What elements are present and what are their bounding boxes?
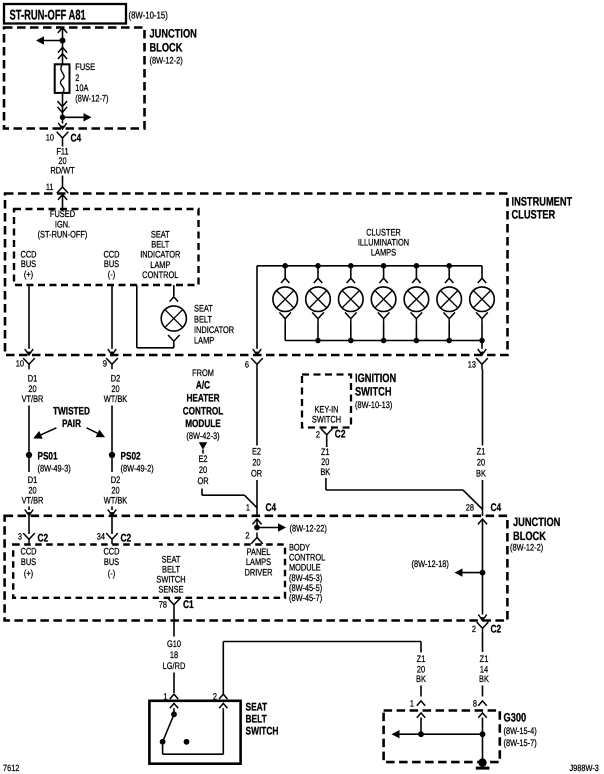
svg-text:J988W-3: J988W-3 <box>569 763 598 773</box>
wire F11 20 RD/WT <box>62 143 64 147</box>
wire E2 from A/C module <box>202 450 204 454</box>
svg-text:1: 1 <box>246 503 250 513</box>
svg-text:C2: C2 <box>37 533 48 545</box>
svg-text:LAMPS: LAMPS <box>371 247 396 258</box>
svg-text:CCD: CCD <box>103 547 119 558</box>
fuse 2 10A <box>55 64 70 93</box>
svg-text:SWITCH: SWITCH <box>246 726 279 738</box>
wire CCD(+) to pin 10 <box>28 285 30 349</box>
svg-text:CONTROL: CONTROL <box>183 406 224 418</box>
junction dot ground node <box>480 731 486 737</box>
svg-text:C2: C2 <box>490 624 501 636</box>
svg-text:2: 2 <box>472 624 476 634</box>
svg-text:INDICATOR: INDICATOR <box>194 325 234 336</box>
wire Z1 14 BK to G300 <box>482 633 484 652</box>
svg-text:BUS: BUS <box>104 557 119 568</box>
svg-text:VT/BR: VT/BR <box>22 394 44 405</box>
arrow to other circuits (right) <box>84 113 92 121</box>
junction block (top) outline <box>4 28 145 129</box>
wire D1 segment <box>28 406 30 452</box>
svg-text:2: 2 <box>213 692 217 702</box>
svg-text:RD/WT: RD/WT <box>50 165 74 176</box>
svg-text:(8W-42-3): (8W-42-3) <box>186 431 219 442</box>
svg-text:HEATER: HEATER <box>186 393 219 405</box>
arrow to other circuits (left) <box>36 36 44 44</box>
junction dot 8W-12-18 node <box>480 570 486 576</box>
lamp L2 cluster illumination <box>317 266 319 278</box>
svg-text:LAMP: LAMP <box>194 335 214 346</box>
exit arrow at junction block bottom <box>58 123 66 129</box>
svg-text:8: 8 <box>473 699 477 709</box>
svg-text:BUS: BUS <box>21 259 36 270</box>
arrow from A/C heater control module <box>199 442 207 450</box>
svg-text:SEAT: SEAT <box>246 702 268 714</box>
svg-text:TWISTED: TWISTED <box>53 406 90 418</box>
svg-text:(8W-12-18): (8W-12-18) <box>411 559 448 570</box>
svg-text:JUNCTION: JUNCTION <box>149 27 196 41</box>
svg-text:2: 2 <box>316 430 320 440</box>
node PS01 <box>26 452 32 458</box>
G300 internal wires <box>420 718 422 735</box>
svg-text:FUSE: FUSE <box>75 62 95 73</box>
wire into cluster module <box>62 195 64 210</box>
wire E2 to connector C4 pin 1 <box>201 489 203 496</box>
svg-text:(8W-15-7): (8W-15-7) <box>503 738 536 749</box>
svg-text:Z1: Z1 <box>480 654 489 665</box>
wire D1 segment below PS01 <box>28 458 30 472</box>
wire stub to 8W-12-22 <box>257 527 279 529</box>
svg-text:DRIVER: DRIVER <box>244 567 272 578</box>
wire to pin 13 <box>481 341 483 349</box>
svg-text:C1: C1 <box>183 599 194 611</box>
svg-text:A/C: A/C <box>196 380 210 392</box>
ignition switch outline <box>302 375 351 428</box>
wire to C4 pin 10 <box>62 117 64 123</box>
ground symbol G300 <box>478 758 486 766</box>
svg-text:(+): (+) <box>24 569 33 580</box>
lamp L7 cluster illumination <box>481 266 483 278</box>
seat belt switch box <box>149 701 240 764</box>
wire stub to other circuits <box>44 40 63 42</box>
svg-text:OR: OR <box>197 476 208 487</box>
svg-text:CONTROL: CONTROL <box>142 270 178 281</box>
wire Z1 through junction block <box>478 519 487 524</box>
svg-text:(8W-10-15): (8W-10-15) <box>128 11 167 22</box>
svg-text:20: 20 <box>252 458 260 469</box>
svg-text:13: 13 <box>468 360 476 370</box>
svg-text:(+): (+) <box>24 270 33 281</box>
svg-text:G300: G300 <box>504 711 527 725</box>
junction dot panel lamps node <box>254 525 260 531</box>
svg-text:(8W-10-13): (8W-10-13) <box>355 400 392 411</box>
svg-text:9: 9 <box>103 359 107 369</box>
svg-text:PAIR: PAIR <box>62 418 81 430</box>
svg-text:Z1: Z1 <box>417 654 426 665</box>
svg-text:C2: C2 <box>335 429 346 441</box>
svg-text:BLOCK: BLOCK <box>513 529 546 543</box>
svg-text:(8W-49-2): (8W-49-2) <box>121 464 154 475</box>
svg-text:BUS: BUS <box>104 259 119 270</box>
svg-text:BELT: BELT <box>246 714 267 726</box>
wire feed to fuse <box>62 28 64 65</box>
exit arrow pin 10 <box>25 349 33 355</box>
lamp L4 cluster illumination <box>383 266 385 278</box>
seat belt switch internals <box>173 708 175 714</box>
wire panel lamps feed <box>256 519 258 528</box>
wire pin 6 feed drop <box>256 266 258 349</box>
svg-text:18: 18 <box>170 650 178 661</box>
svg-text:20: 20 <box>477 458 485 469</box>
svg-text:WT/BK: WT/BK <box>104 496 128 507</box>
svg-text:G10: G10 <box>167 639 181 650</box>
svg-text:C4: C4 <box>490 502 501 514</box>
svg-text:34: 34 <box>97 532 105 542</box>
svg-text:(ST-RUN-OFF): (ST-RUN-OFF) <box>38 230 88 241</box>
svg-text:(-): (-) <box>108 270 115 281</box>
connector chevron above fuse 1 <box>58 47 67 52</box>
wire D2 segment <box>111 406 113 452</box>
svg-text:C2: C2 <box>120 533 131 545</box>
svg-text:SEAT: SEAT <box>194 304 213 315</box>
svg-text:BLOCK: BLOCK <box>149 41 182 55</box>
arrow to 8W-12-22 <box>278 523 286 531</box>
svg-text:C4: C4 <box>70 133 81 145</box>
svg-text:10: 10 <box>46 133 54 143</box>
svg-text:OR: OR <box>251 469 262 480</box>
exit arrow junction block bottom <box>478 615 486 621</box>
svg-text:BK: BK <box>320 467 330 478</box>
junction block (bottom) outline <box>5 516 508 621</box>
svg-text:FROM: FROM <box>192 368 214 379</box>
svg-text:1: 1 <box>410 699 414 709</box>
entry chevron C4 pin 1 <box>252 519 261 524</box>
cluster illumination lamps bus (top) <box>257 265 482 267</box>
svg-text:(8W-12-2): (8W-12-2) <box>510 543 543 554</box>
svg-text:(8W-12-7): (8W-12-7) <box>75 94 108 105</box>
svg-text:JUNCTION: JUNCTION <box>513 515 560 529</box>
svg-text:7612: 7612 <box>3 763 19 773</box>
svg-text:3: 3 <box>18 532 22 542</box>
svg-text:SENSE: SENSE <box>158 585 183 596</box>
svg-text:BELT: BELT <box>194 314 212 325</box>
svg-text:(8W-12-2): (8W-12-2) <box>150 56 183 67</box>
svg-text:2: 2 <box>245 531 249 541</box>
connector chevron below fuse 2 <box>58 107 68 113</box>
svg-text:Z1: Z1 <box>477 447 486 458</box>
svg-text:CCD: CCD <box>20 547 36 558</box>
lamp L3 cluster illumination <box>350 266 352 278</box>
svg-text:78: 78 <box>159 600 167 610</box>
svg-text:MODULE: MODULE <box>185 418 221 430</box>
svg-text:10: 10 <box>16 359 24 369</box>
wire E2 into junction block <box>256 480 258 516</box>
svg-text:IGN.: IGN. <box>55 219 70 230</box>
svg-text:LG/RD: LG/RD <box>163 661 186 672</box>
wire stub to other circuits right <box>63 116 85 118</box>
svg-text:(8W-12-22): (8W-12-22) <box>289 524 326 535</box>
seat belt indicator lamp <box>173 285 175 296</box>
svg-text:BK: BK <box>479 674 489 685</box>
svg-text:WT/BK: WT/BK <box>104 394 128 405</box>
body control module inner outline <box>13 545 285 598</box>
svg-text:6: 6 <box>245 360 249 370</box>
svg-text:BK: BK <box>416 674 426 685</box>
svg-text:(8W-45-7): (8W-45-7) <box>289 593 322 604</box>
seat belt indicator lamp circuit return wire <box>136 285 138 348</box>
junction dot feed node <box>60 38 66 44</box>
ground G300 outline <box>384 711 500 763</box>
wire G10 18 LG/RD <box>173 609 175 636</box>
svg-text:PS01: PS01 <box>37 451 57 463</box>
svg-text:SWITCH: SWITCH <box>312 415 341 426</box>
svg-text:(8W-15-4): (8W-15-4) <box>503 726 536 737</box>
svg-text:CLUSTER: CLUSTER <box>512 208 556 222</box>
svg-text:ST-RUN-OFF A81: ST-RUN-OFF A81 <box>10 7 86 23</box>
svg-text:(-): (-) <box>108 569 115 580</box>
svg-text:C4: C4 <box>265 502 276 514</box>
svg-text:VT/BR: VT/BR <box>22 496 44 507</box>
arrow ground continuation <box>392 730 400 738</box>
arrow to 8W-12-18 <box>455 568 463 576</box>
wire Z1 into junction block <box>482 480 484 516</box>
svg-text:11: 11 <box>46 182 54 192</box>
lamp L1 cluster illumination <box>284 266 286 278</box>
svg-text:20: 20 <box>199 465 207 476</box>
wire entry chevron at junction block top <box>58 28 67 33</box>
lamp L6 cluster illumination <box>448 266 450 278</box>
svg-text:BUS: BUS <box>21 557 36 568</box>
connector chevron above fuse 2 <box>58 54 67 59</box>
exit arrow pin 9 <box>108 349 116 355</box>
cluster internal module outline <box>14 209 199 285</box>
entry chevron pin 11 inside cluster <box>58 195 67 200</box>
node PS02 <box>109 452 115 458</box>
svg-text:BK: BK <box>476 469 486 480</box>
cluster illumination lamps bus (bottom) <box>285 340 482 342</box>
svg-text:28: 28 <box>466 503 474 513</box>
svg-text:10A: 10A <box>75 83 89 94</box>
exit arrow pin 6 <box>253 349 261 355</box>
svg-text:(8W-49-3): (8W-49-3) <box>38 464 71 475</box>
connector chevron below fuse 1 <box>58 101 68 107</box>
instrument cluster outline <box>5 194 508 356</box>
svg-text:PS02: PS02 <box>120 451 140 463</box>
wire fuse output <box>62 93 64 117</box>
twisted pair pointer arrows <box>38 428 56 436</box>
svg-text:E2: E2 <box>198 454 207 465</box>
wire D1 into junction block <box>28 507 30 511</box>
junction dot fuse output node <box>60 115 66 121</box>
wire D2 into junction block <box>111 507 113 511</box>
wire D2 segment below PS02 <box>111 458 113 472</box>
svg-text:E2: E2 <box>252 447 261 458</box>
svg-text:INSTRUMENT: INSTRUMENT <box>512 195 573 209</box>
svg-text:IGNITION: IGNITION <box>355 371 396 385</box>
lamp L5 cluster illumination <box>415 266 417 278</box>
wire Z1 from key-in switch <box>326 439 328 447</box>
svg-text:SWITCH: SWITCH <box>355 385 392 399</box>
exit arrow pin 13 <box>478 349 486 355</box>
wire Z1 20 BK seat belt switch to G300 <box>222 642 224 695</box>
node ST-RUN-OFF A81 feed title box <box>4 4 126 24</box>
wire CCD(-) to pin 9 <box>111 285 113 349</box>
